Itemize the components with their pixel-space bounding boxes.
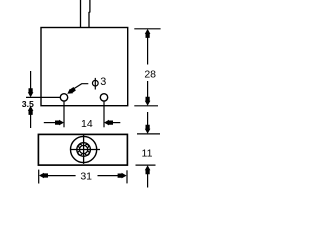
- phi symbol stroke: [92, 80, 98, 86]
- emblem petal bottom-left: [78, 151, 82, 155]
- arrow phi3 leader: [67, 87, 76, 94]
- arrow 14 right (points left): [104, 120, 113, 126]
- arrow 28 top (points up): [145, 29, 151, 38]
- svg-text:28: 28: [144, 69, 156, 81]
- extension line 31 left: [38, 170, 40, 184]
- dimension 31 line right: [98, 175, 120, 177]
- arrow 31 left (points left): [39, 173, 48, 179]
- svg-text:31: 31: [80, 170, 92, 182]
- emblem petal bottom-right: [85, 151, 89, 155]
- lead wire left: [80, 0, 82, 28]
- emblem centerline horizontal: [70, 149, 100, 151]
- dimension 31 line left: [46, 175, 76, 177]
- dimension 3.5 lower leader: [30, 111, 32, 128]
- dimension 14 line right: [109, 122, 120, 124]
- arrow 11 top (points down): [145, 125, 151, 134]
- extension line 28 bottom: [134, 105, 158, 107]
- pin hole left: [60, 94, 67, 101]
- arrow 14 left (points right): [55, 120, 64, 126]
- leader line phi3: [73, 84, 88, 90]
- emblem middle circle: [77, 143, 91, 157]
- body outline side view: [38, 134, 127, 165]
- extension line pin-center: [26, 96, 60, 98]
- emblem petal top-right: [85, 144, 88, 147]
- svg-text:14: 14: [81, 118, 93, 130]
- dimension 14 line left: [44, 122, 59, 124]
- extension line left pin: [63, 102, 65, 128]
- dimension 11 lower tail: [147, 171, 149, 188]
- arrow 3.5 down: [28, 88, 34, 97]
- emblem petal top-left: [79, 144, 82, 147]
- emblem inner circle: [79, 145, 87, 153]
- svg-text:3: 3: [100, 76, 106, 88]
- pin hole right: [100, 94, 107, 101]
- extension line 11 bottom: [136, 164, 156, 166]
- sound emblem: [70, 134, 100, 164]
- extension line 28 top: [134, 28, 160, 30]
- arrow 3.5 up: [28, 106, 34, 115]
- extension line right pin: [103, 102, 105, 128]
- dimension 3.5 upper leader: [30, 71, 32, 92]
- dimension 11 upper tail: [147, 112, 149, 130]
- svg-text:11: 11: [142, 147, 153, 159]
- body outline front view: [41, 28, 128, 106]
- arrow 11 bottom (points up): [145, 165, 151, 174]
- arrow 28 bottom (points down): [145, 97, 151, 106]
- svg-text:3.5: 3.5: [22, 99, 34, 109]
- arrow 31 right (points right): [118, 173, 127, 179]
- emblem outer circle: [71, 136, 97, 162]
- lead wire right: [88, 0, 91, 28]
- extension line 31 right: [126, 170, 128, 183]
- extension line 11 top: [137, 133, 160, 135]
- emblem centerline vertical: [83, 134, 85, 164]
- dimension 28 line: [147, 34, 149, 65]
